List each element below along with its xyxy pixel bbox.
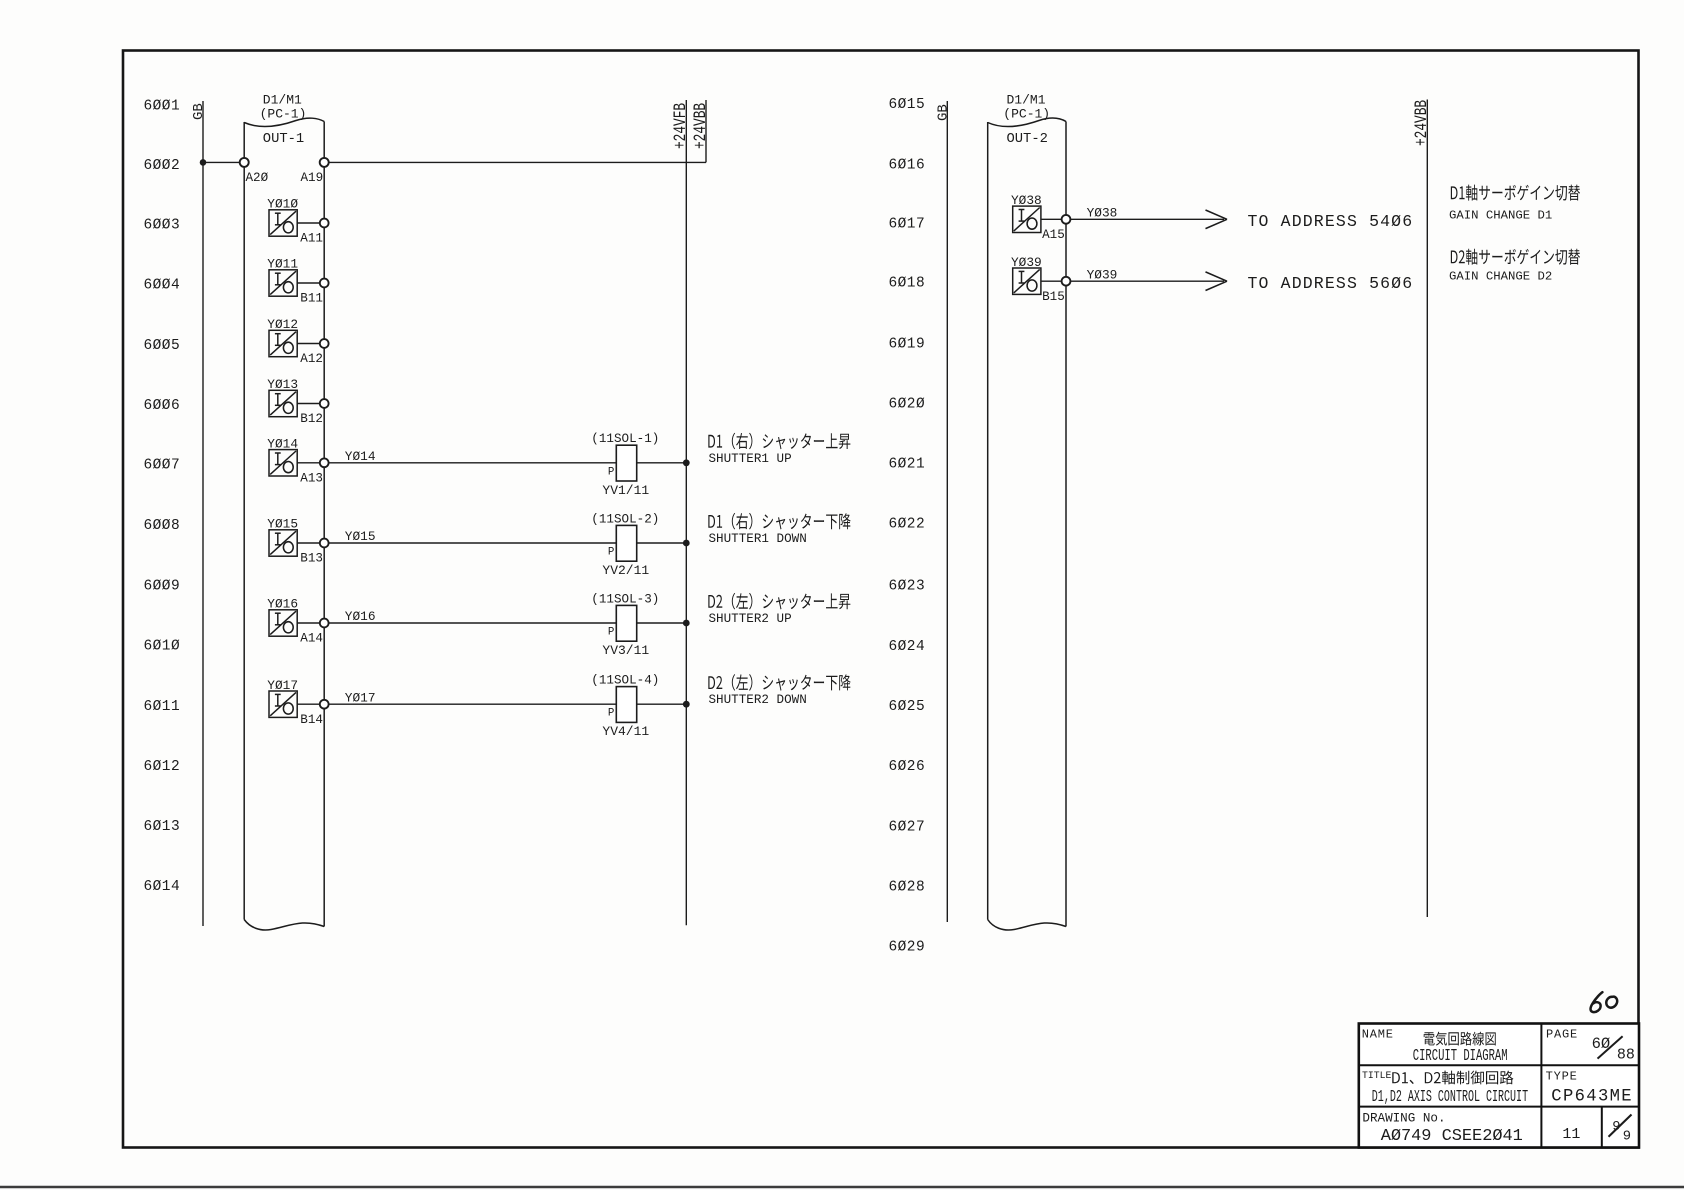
title block title D1、D2軸制御回路 (japanese) <box>1392 1071 1513 1085</box>
title block frame <box>1359 1024 1639 1148</box>
svg-text:P: P <box>608 466 614 478</box>
solenoid coil YV3/11 (11SOL-3) <box>591 592 659 658</box>
svg-text:P: P <box>608 627 614 639</box>
svg-text:9: 9 <box>1623 1129 1631 1144</box>
output contact Y012 (pin A12) <box>267 317 328 366</box>
label SHUTTER2 UP (japanese) <box>708 593 850 610</box>
svg-text:6Ø1Ø: 6Ø1Ø <box>144 638 181 654</box>
svg-text:GB: GB <box>936 104 952 121</box>
svg-text:6ØØ1: 6ØØ1 <box>144 98 181 114</box>
wire Y016 to solenoid YV3/11 <box>329 622 617 624</box>
svg-text:6Ø15: 6Ø15 <box>889 97 926 113</box>
svg-text:CIRCUIT DIAGRAM: CIRCUIT DIAGRAM <box>1413 1047 1508 1066</box>
handwritten page number 60 <box>1591 992 1618 1012</box>
svg-text:A11: A11 <box>300 232 323 246</box>
output contact Y013 (pin B12) <box>267 377 328 426</box>
svg-text:(11SOL-2): (11SOL-2) <box>591 512 659 526</box>
module U2 D1/M1 (PC-1) OUT-2 outline <box>988 118 1066 930</box>
svg-text:DRAWING No.: DRAWING No. <box>1362 1111 1445 1125</box>
title block revision 9/9 <box>1609 1115 1632 1145</box>
svg-text:SHUTTER1 UP: SHUTTER1 UP <box>709 452 792 466</box>
svg-text:A14: A14 <box>300 632 323 646</box>
svg-text:CP643ME: CP643ME <box>1551 1088 1633 1107</box>
wire solenoid YV2/11 to +24VFB <box>637 542 687 544</box>
label SHUTTER1 DOWN (japanese) <box>708 513 850 530</box>
wire Y038 to address arrow <box>1070 218 1224 220</box>
svg-text:D1/M1: D1/M1 <box>263 92 302 107</box>
svg-text:GB: GB <box>191 103 207 120</box>
junction on +24VFB at YV4/11 <box>683 701 690 708</box>
svg-text:A13: A13 <box>300 471 323 485</box>
wire solenoid YV1/11 to +24VFB <box>637 462 687 464</box>
svg-text:6ØØ3: 6ØØ3 <box>144 217 181 233</box>
svg-text:6ØØ5: 6ØØ5 <box>144 338 181 354</box>
svg-text:6Ø12: 6Ø12 <box>144 759 181 775</box>
svg-text:6Ø11: 6Ø11 <box>144 699 181 715</box>
svg-text:6Ø28: 6Ø28 <box>889 879 926 895</box>
svg-text:YØ39: YØ39 <box>1087 267 1118 282</box>
svg-text:6Ø23: 6Ø23 <box>889 578 926 594</box>
title block name CIRCUIT DIAGRAM <box>1413 1047 1508 1066</box>
label GAIN CHANGE D2 (japanese) <box>1451 249 1580 265</box>
wire solenoid YV4/11 to +24VFB <box>637 703 687 705</box>
svg-text:6Ø24: 6Ø24 <box>889 639 926 655</box>
arrow to address (Y039) <box>1206 272 1228 291</box>
svg-text:6Ø29: 6Ø29 <box>889 939 926 955</box>
svg-text:6Ø26: 6Ø26 <box>889 759 926 775</box>
label SHUTTER1 UP (japanese) <box>708 433 850 450</box>
svg-text:B14: B14 <box>300 713 323 727</box>
svg-text:A15: A15 <box>1042 228 1065 242</box>
output contact Y014 (pin A13) <box>267 437 328 486</box>
svg-text:6Ø2Ø: 6Ø2Ø <box>889 396 926 412</box>
svg-text:YV1/11: YV1/11 <box>602 483 649 498</box>
output contact Y017 (pin B14) <box>267 678 328 727</box>
svg-text:OUT-2: OUT-2 <box>1007 132 1048 147</box>
wire solenoid YV3/11 to +24VFB <box>637 622 687 624</box>
svg-text:B13: B13 <box>300 552 323 566</box>
wire Y039 to address arrow <box>1070 280 1224 282</box>
label GAIN CHANGE D1 (japanese) <box>1451 185 1580 201</box>
junction on +24VFB at YV2/11 <box>683 540 690 547</box>
net label +24VFB <box>670 103 691 149</box>
wire Y015 to solenoid YV2/11 <box>329 542 617 544</box>
svg-text:6ØØ9: 6ØØ9 <box>144 578 181 594</box>
svg-text:SHUTTER1 DOWN: SHUTTER1 DOWN <box>709 532 807 546</box>
svg-text:P: P <box>608 547 614 559</box>
svg-text:A2Ø: A2Ø <box>246 171 269 185</box>
svg-text:(11SOL-1): (11SOL-1) <box>591 432 659 446</box>
junction on +24VFB at YV3/11 <box>683 620 690 627</box>
svg-text:6Ø17: 6Ø17 <box>889 216 926 232</box>
svg-text:D1,D2 AXIS CONTROL CIRCUIT: D1,D2 AXIS CONTROL CIRCUIT <box>1372 1087 1528 1106</box>
svg-text:GAIN CHANGE D2: GAIN CHANGE D2 <box>1449 269 1552 283</box>
output contact Y038 (pin A15) <box>1011 193 1070 242</box>
svg-text:6ØØ6: 6ØØ6 <box>144 398 181 414</box>
svg-text:AØ749 CSEE2Ø41: AØ749 CSEE2Ø41 <box>1381 1127 1523 1146</box>
svg-text:P: P <box>608 708 614 720</box>
right +24VBB bus wire <box>1426 100 1428 918</box>
svg-text:A12: A12 <box>300 352 323 366</box>
label SHUTTER2 DOWN (japanese) <box>708 674 850 691</box>
svg-text:SHUTTER2 UP: SHUTTER2 UP <box>709 612 792 626</box>
svg-text:11: 11 <box>1562 1126 1580 1143</box>
svg-text:B15: B15 <box>1042 290 1065 304</box>
title block page number 60/88 <box>1592 1035 1635 1063</box>
svg-text:+24VFB: +24VFB <box>670 103 691 149</box>
output contact Y010 (pin A11) <box>267 197 328 246</box>
svg-text:(PC-1): (PC-1) <box>1003 107 1050 122</box>
svg-text:A19: A19 <box>301 171 324 185</box>
svg-text:YØ14: YØ14 <box>345 449 376 464</box>
net label +24VBB (left) <box>690 103 711 149</box>
svg-text:B11: B11 <box>300 292 323 306</box>
svg-text:(PC-1): (PC-1) <box>260 107 307 122</box>
svg-text:TYPE: TYPE <box>1546 1069 1578 1083</box>
svg-text:6Ø27: 6Ø27 <box>889 819 926 835</box>
solenoid coil YV4/11 (11SOL-4) <box>591 674 659 740</box>
wire GB to pin A20 <box>203 161 240 163</box>
svg-text:6ØØ8: 6ØØ8 <box>144 518 181 534</box>
+24VBB stub wire <box>705 100 707 162</box>
svg-text:SHUTTER2 DOWN: SHUTTER2 DOWN <box>709 693 807 707</box>
output contact Y016 (pin A14) <box>267 597 328 646</box>
wire Y014 to solenoid YV1/11 <box>329 462 617 464</box>
svg-text:6Ø22: 6Ø22 <box>889 516 926 532</box>
svg-text:6Ø19: 6Ø19 <box>889 336 926 352</box>
svg-text:6ØØ4: 6ØØ4 <box>144 277 181 293</box>
svg-text:B12: B12 <box>300 412 323 426</box>
svg-text:YØ15: YØ15 <box>345 529 376 544</box>
svg-text:6ØØ2: 6ØØ2 <box>144 158 181 174</box>
output contact Y039 (pin B15) <box>1011 255 1070 304</box>
output contact Y011 (pin B11) <box>267 257 328 306</box>
svg-text:6Ø13: 6Ø13 <box>144 819 181 835</box>
junction on GB bus at 6002 <box>200 159 207 166</box>
svg-text:YV4/11: YV4/11 <box>602 724 649 739</box>
net label GB (left) <box>191 103 207 120</box>
solenoid coil YV1/11 (11SOL-1) <box>591 432 659 498</box>
svg-text:(11SOL-4): (11SOL-4) <box>591 674 659 688</box>
svg-text:88: 88 <box>1617 1046 1635 1063</box>
svg-text:6Ø18: 6Ø18 <box>889 275 926 291</box>
arrow to address (Y038) <box>1206 210 1228 229</box>
pin A19 terminal <box>320 158 329 167</box>
svg-text:OUT-1: OUT-1 <box>263 132 304 147</box>
wire Y017 to solenoid YV4/11 <box>329 703 617 705</box>
svg-text:TO ADDRESS 54Ø6: TO ADDRESS 54Ø6 <box>1248 212 1414 231</box>
net label +24VBB (right) <box>1411 100 1432 146</box>
bottom scan edge line <box>0 1186 1684 1189</box>
pin A20 terminal <box>240 158 249 167</box>
title block title D1,D2 AXIS CONTROL CIRCUIT <box>1372 1087 1528 1106</box>
wire A19 to +24VBB <box>329 161 706 163</box>
left GB bus wire <box>202 101 204 926</box>
svg-text:6Ø25: 6Ø25 <box>889 699 926 715</box>
svg-text:GAIN CHANGE D1: GAIN CHANGE D1 <box>1449 209 1552 223</box>
module U1 D1/M1 (PC-1) OUT-1 outline <box>244 118 324 930</box>
svg-text:TO ADDRESS 56Ø6: TO ADDRESS 56Ø6 <box>1248 274 1414 293</box>
svg-text:YV2/11: YV2/11 <box>602 563 649 578</box>
net label GB (right) <box>936 104 952 121</box>
svg-text:YØ17: YØ17 <box>345 690 376 705</box>
svg-text:TITLE: TITLE <box>1362 1070 1392 1081</box>
title block name 電気回路線図 (japanese) <box>1424 1032 1496 1046</box>
junction on +24VFB at YV1/11 <box>683 459 690 466</box>
svg-text:+24VBB: +24VBB <box>1411 100 1432 146</box>
right GB bus wire <box>946 101 948 922</box>
svg-text:6Ø21: 6Ø21 <box>889 456 926 472</box>
svg-text:YØ16: YØ16 <box>345 609 376 624</box>
svg-text:PAGE: PAGE <box>1546 1027 1578 1041</box>
svg-text:D1/M1: D1/M1 <box>1007 92 1046 107</box>
output contact Y015 (pin B13) <box>267 517 328 566</box>
svg-text:6ØØ7: 6ØØ7 <box>144 457 181 473</box>
svg-text:YV3/11: YV3/11 <box>602 643 649 658</box>
svg-text:+24VBB: +24VBB <box>690 103 711 149</box>
svg-text:(11SOL-3): (11SOL-3) <box>591 592 659 606</box>
+24VFB bus wire <box>685 100 687 925</box>
svg-text:6Ø14: 6Ø14 <box>144 879 181 895</box>
svg-text:NAME: NAME <box>1362 1027 1394 1041</box>
svg-text:6Ø16: 6Ø16 <box>889 157 926 173</box>
svg-text:YØ38: YØ38 <box>1087 206 1118 221</box>
solenoid coil YV2/11 (11SOL-2) <box>591 512 659 578</box>
